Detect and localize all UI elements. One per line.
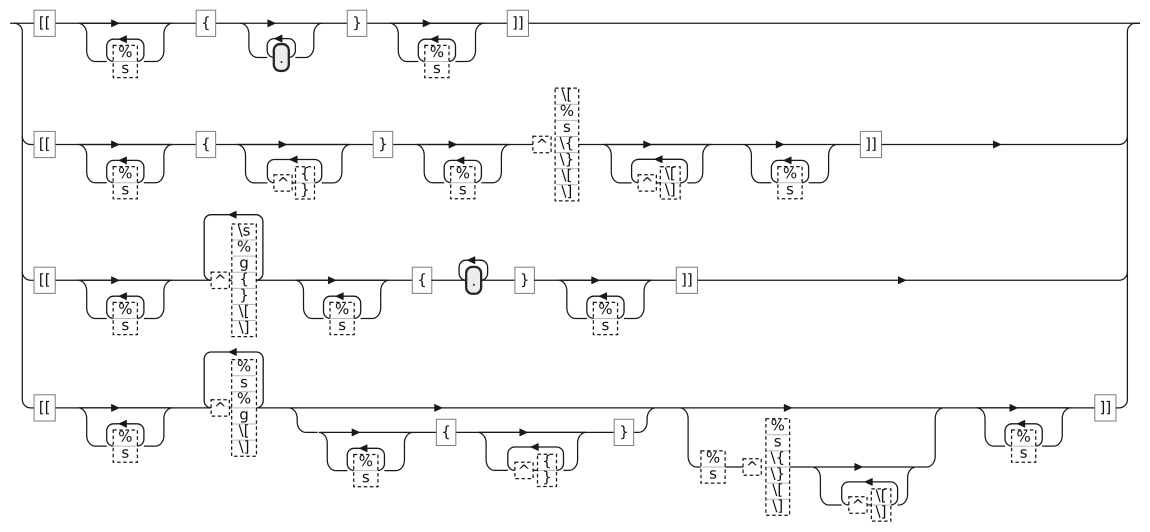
row1 repeat loop .* — [267, 39, 295, 58]
row4 opt2 negation caret — [743, 459, 761, 475]
row4 opt1 skip arrow — [435, 404, 443, 411]
row2 terminal } — [373, 131, 393, 157]
repeat loop row4 %s* #1 — [107, 424, 144, 446]
arrow right row1 %s* #2 — [423, 20, 431, 27]
row1 any-char box — [274, 44, 289, 71]
row4 terminal ]] — [1095, 395, 1116, 421]
left branch rail — [14, 23, 34, 408]
repeat loop row2 [^{}]* — [267, 160, 321, 183]
arrow left row2 %s* #1 — [119, 157, 127, 164]
row2 terminal ]] — [860, 131, 881, 157]
escape stack %s row1 %s* #2 — [425, 45, 449, 77]
row4 opt2 escape stack %s — [701, 451, 725, 483]
row4 opt1 wire { } — [412, 431, 613, 433]
arrow right row3 %s* #2 — [328, 277, 336, 284]
row2 exit arrow — [993, 141, 1001, 148]
arrow right row2 [^{}]* — [279, 141, 287, 148]
row2 negation caret class7 — [533, 136, 551, 152]
arrow right row4 opt1 [^{}]* — [520, 429, 528, 436]
row2 wire main — [34, 144, 533, 146]
arrow right row1 %s* #1 — [111, 20, 119, 27]
repeat loop row1 %s* #2 — [418, 39, 455, 61]
row1 exit wire — [529, 22, 1141, 24]
row2 exit wire — [882, 144, 1120, 146]
arrow right row4 opt1 %s* — [352, 429, 360, 436]
wire row1 %s* #2 drop/loop — [390, 23, 484, 61]
row3 terminal [[ — [34, 267, 55, 293]
repeat loop row2 %s* #3 — [771, 160, 808, 182]
negation caret row2 [^brk]* — [638, 175, 656, 191]
row3 exit wire — [698, 279, 1120, 281]
row3 wire main — [34, 279, 211, 281]
wire row4 %s* #1 drop/loop — [78, 408, 172, 446]
row4 wire class6 to opt1 — [256, 407, 288, 409]
wire row3 %s* #2 drop/loop — [295, 280, 389, 318]
row4 terminal [[ — [34, 395, 55, 421]
escape stack %s row1 %s* #1 — [113, 45, 137, 77]
repeat loop row4 opt2 [^brk]* — [842, 482, 898, 505]
row4 opt1 terminal } — [614, 419, 634, 445]
row4 exit curve — [1116, 400, 1128, 408]
arrow right row2 %s* #2 — [449, 141, 457, 148]
escape stack %s row4 %s* #1 — [113, 430, 137, 462]
wire row4 opt2 [^brk]* drop/loop — [812, 467, 916, 505]
wire row3 %s* #3 drop/loop — [558, 280, 652, 318]
arrow right row2 %s* #1 — [111, 141, 119, 148]
repeat loop row3 %s* #3 — [587, 296, 624, 318]
escape stack %s row2 %s* #2 — [451, 167, 475, 199]
arrow right row2 %s* #3 — [776, 141, 784, 148]
repeat loop row4 opt1 %s* — [347, 448, 384, 470]
class stack row4 class6+ — [232, 360, 257, 457]
arrow right row3 %s* #3 — [592, 277, 600, 284]
escape stack %s row3 %s* #1 — [113, 302, 137, 334]
escape stack %s row4 %s* last — [1012, 430, 1036, 462]
row3 wire after class7 — [256, 279, 412, 281]
row1 terminal [[ — [34, 10, 55, 36]
arrow left row3 %s* #3 — [599, 293, 607, 300]
arrow left row4 opt1 %s* — [359, 445, 367, 452]
repeat loop row1 %s* #1 — [107, 39, 144, 61]
class stack row4 opt1 [^{}]* — [538, 454, 557, 486]
repeat loop row2 %s* #2 — [444, 160, 481, 182]
repeat loop row4 class6+ — [204, 352, 263, 408]
arrow left row4 opt2 [^brk]* — [864, 478, 872, 485]
repeat loop row2 [^brk]* — [632, 159, 688, 183]
arrow left row2 [^brk]* — [654, 156, 662, 163]
row4 wire to last %s — [944, 407, 1095, 409]
arrow left row3 %s* #1 — [119, 293, 127, 300]
repeat loop row4 opt1 [^{}]* — [508, 447, 564, 470]
wire row3 %s* #1 drop/loop — [78, 280, 172, 318]
row2 terminal [[ — [34, 131, 55, 157]
class stack row4 opt2 [^brk]* — [871, 489, 891, 521]
row2 wire after class7 — [579, 144, 743, 146]
repeat loop row2 %s* #1 — [107, 160, 144, 182]
row2 wire to ]] — [836, 144, 861, 146]
class stack row2 [^{}]* — [296, 167, 315, 199]
escape stack %s row3 %s* #2 — [330, 302, 354, 334]
row4 opt2 wire stack-caret — [725, 466, 743, 468]
row4 opt1 skip wire — [289, 407, 656, 409]
repeat loop row3 class7+ — [204, 215, 263, 281]
row4 wire between opts — [656, 407, 944, 409]
row1 terminal { — [196, 10, 216, 36]
escape stack %s row2 %s* #3 — [778, 167, 802, 199]
arrow left row4 class6+ — [229, 348, 237, 355]
row4 opt2 wire to class — [790, 466, 812, 468]
row3 wire } to ]] — [534, 279, 676, 281]
negation caret row3 class7+ — [211, 272, 229, 288]
wire row2 %s* #1 drop/loop — [78, 145, 172, 183]
wire row2 [^brk]* drop/loop — [603, 145, 712, 183]
arrow left row3 %s* #2 — [335, 293, 343, 300]
row1 arrow right .* — [268, 20, 276, 27]
repeat loop row4 %s* last — [1005, 424, 1042, 446]
arrow left row1 %s* #1 — [119, 36, 127, 43]
class stack row2 [^brk]* — [660, 167, 680, 199]
negation caret row2 [^{}]* — [274, 175, 292, 191]
arrow left row2 %s* #3 — [783, 157, 791, 164]
arrow right row3 %s* #1 — [111, 277, 119, 284]
row3 repeat loop .+ — [459, 260, 488, 280]
row4 opt2 class stack 6 — [766, 419, 790, 516]
wire row2 %s* #3 drop/loop — [743, 145, 837, 183]
wire row4 opt1 %s* drop/loop — [319, 432, 413, 470]
arrow right row4 %s* last — [1010, 404, 1018, 411]
arrow left row4 %s* #1 — [119, 420, 127, 427]
row1 terminal ]] — [507, 10, 528, 36]
row4 opt1 terminal { — [436, 419, 456, 445]
arrow right row4 opt2 [^brk]* — [855, 463, 863, 470]
row3 exit arrow — [898, 277, 906, 284]
arrow right row4 %s* #1 — [111, 404, 119, 411]
negation caret row4 class6+ — [211, 400, 229, 416]
start wire — [10, 22, 34, 24]
row3 terminal { — [412, 267, 432, 293]
class stack row3 class7+ — [232, 224, 256, 337]
row1 wire main — [34, 22, 507, 24]
arrow left row4 %s* last — [1017, 420, 1025, 427]
negation caret row4 opt1 [^{}]* — [515, 462, 533, 478]
row3 arrow left .+ — [467, 257, 475, 264]
escape stack %s row4 opt1 %s* — [354, 455, 378, 487]
escape stack %s row3 %s* #3 — [593, 302, 617, 334]
repeat loop row3 %s* #1 — [107, 296, 144, 318]
row1 wire .* drop — [240, 23, 322, 57]
row3 wire { to } — [431, 279, 515, 281]
escape stack %s row2 %s* #1 — [113, 167, 137, 199]
arrow left row1 %s* #2 — [430, 36, 438, 43]
arrow left row4 opt1 [^{}]* — [530, 443, 538, 450]
wire row1 %s* #1 drop/loop — [78, 23, 172, 61]
arrow left row2 %s* #2 — [456, 157, 464, 164]
row4 opt2 skip arrow — [784, 404, 792, 411]
negation caret row4 opt2 [^brk]* — [849, 497, 867, 513]
row2 class stack 7 — [555, 88, 579, 201]
arrow right row2 [^brk]* — [644, 141, 652, 148]
row1 terminal } — [347, 10, 367, 36]
repeat loop row3 %s* #2 — [324, 296, 361, 318]
row1 arrow left .* — [274, 35, 282, 42]
row3 any-char box — [466, 267, 481, 294]
arrow left row2 [^{}]* — [289, 156, 297, 163]
wire row4 opt1 [^{}]* drop/loop — [478, 432, 586, 470]
row4 opt1 drop wires — [289, 408, 656, 433]
wire row2 [^{}]* drop/loop — [237, 145, 350, 183]
row4 wire main — [34, 407, 211, 409]
row4 opt2 drop wires — [680, 408, 944, 467]
wire row2 %s* #2 drop/loop — [416, 145, 510, 183]
right merge rail — [1119, 23, 1140, 399]
row2 terminal { — [196, 131, 216, 157]
wire row4 %s* last drop/loop — [977, 408, 1071, 446]
row3 terminal ]] — [676, 267, 697, 293]
row3 terminal } — [515, 267, 535, 293]
arrow left row3 class7+ — [228, 211, 236, 218]
